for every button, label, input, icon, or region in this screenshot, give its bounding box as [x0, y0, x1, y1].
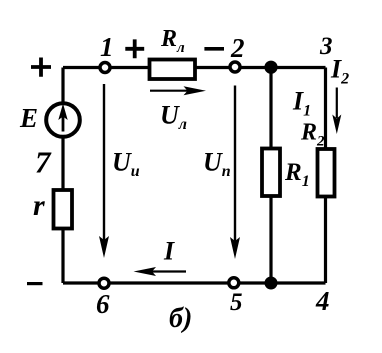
arrow I2 [336, 88, 338, 119]
node 5 [229, 278, 239, 288]
wire top: node1 to node3 [63, 66, 326, 69]
svg-text:r: r [33, 189, 45, 222]
plus sign top (node 1 side) [125, 39, 144, 58]
wire right: R2 branch [324, 68, 327, 284]
svg-text:б): б) [169, 303, 192, 334]
arrow Ui (voltage across source terminals) [103, 84, 105, 242]
svg-text:6: 6 [96, 289, 110, 319]
svg-text:5: 5 [230, 289, 243, 316]
junction dot top [264, 61, 277, 74]
arrow Up (voltage across load) [234, 86, 236, 244]
svg-text:2: 2 [230, 33, 245, 63]
arrow UL (line voltage drop) [150, 90, 188, 92]
svg-text:E: E [19, 103, 38, 133]
resistor R2 [318, 149, 335, 197]
wire bottom: node6 to node4 [63, 281, 326, 284]
node 2 [230, 62, 240, 72]
svg-text:4: 4 [315, 286, 330, 316]
svg-text:7: 7 [35, 145, 52, 180]
resistor R1 [262, 149, 280, 197]
node 6 [99, 278, 109, 288]
wire left: source branch [61, 68, 64, 284]
EMF source E [46, 103, 80, 137]
arrow I (bottom current) [152, 270, 186, 272]
minus sign top (node 2 side) [204, 47, 224, 51]
minus sign bottom left [27, 282, 43, 285]
plus sign left [31, 58, 51, 77]
svg-text:1: 1 [100, 32, 114, 62]
svg-text:I: I [163, 237, 175, 266]
resistor r [54, 190, 73, 229]
wire middle: R1 branch [269, 68, 272, 284]
resistor RL (line) [150, 60, 196, 80]
junction dot bottom [265, 277, 278, 290]
node 1 [100, 63, 110, 73]
